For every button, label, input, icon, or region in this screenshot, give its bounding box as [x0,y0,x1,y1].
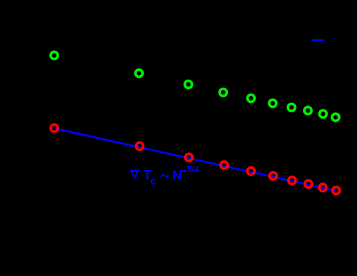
svg-text:c: c [150,176,156,188]
svg-text:N: N [173,168,182,183]
svg-text:5/4: 5/4 [187,164,199,174]
